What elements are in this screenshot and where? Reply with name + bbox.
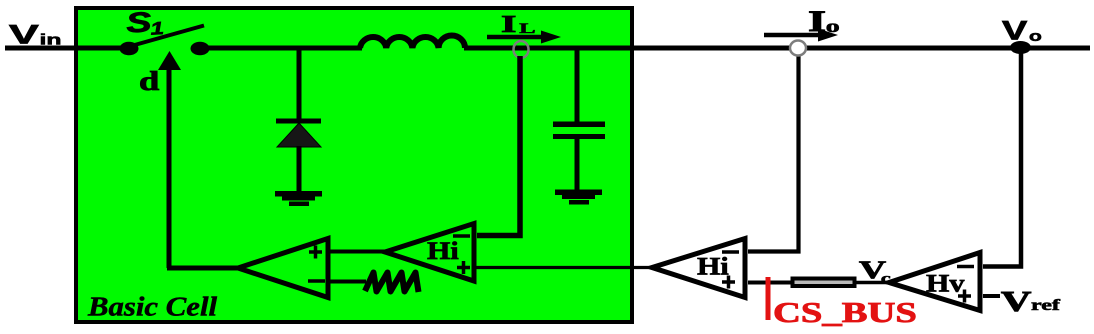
wire capacitor to ground	[575, 138, 580, 190]
wire U1 output to drive	[167, 266, 240, 271]
CS_BUS red tick	[766, 277, 771, 320]
svg-text:V: V	[9, 19, 39, 49]
capacitor C bottom plate	[553, 134, 605, 139]
diode D1 cathode bar	[276, 119, 321, 124]
capacitor C branch wire	[575, 48, 580, 124]
label Vref	[1001, 286, 1060, 317]
svg-text:Hi: Hi	[697, 252, 729, 280]
node IL sense circle	[514, 41, 529, 58]
minus pin U1	[308, 279, 325, 283]
label Basic Cell	[87, 292, 217, 322]
plus pin U2	[457, 266, 470, 270]
minus pin U2	[453, 234, 470, 238]
switch S1 blade	[131, 26, 204, 47]
wire U1 minus to sawtooth	[328, 280, 366, 284]
ground (capacitor)	[555, 190, 602, 196]
capacitor C top plate	[553, 122, 605, 128]
plus pin U1	[309, 250, 322, 254]
label d	[139, 66, 159, 96]
svg-text:Hv: Hv	[926, 269, 965, 297]
node Io sense circle	[790, 41, 806, 56]
wire diode to ground	[297, 146, 302, 192]
minus pin U3	[722, 250, 739, 254]
label S1	[125, 6, 165, 40]
diode D1	[277, 123, 321, 147]
wire inductor to box edge and out to Vo	[464, 46, 1090, 51]
svg-text:o: o	[1029, 27, 1042, 44]
node Vo junction	[1010, 41, 1031, 54]
drive arrow to switch	[167, 68, 172, 268]
label CS_BUS	[773, 298, 917, 329]
wire U2 output to comparator	[328, 250, 386, 254]
svg-text:V: V	[1001, 286, 1032, 317]
svg-text:Hi: Hi	[427, 236, 459, 264]
svg-text:c: c	[881, 270, 891, 286]
svg-text:S: S	[125, 7, 153, 39]
label Io	[808, 5, 840, 38]
wire U4 plus to Vref	[983, 294, 1000, 298]
label Vin	[9, 19, 62, 49]
svg-text:CS_BUS: CS_BUS	[773, 298, 917, 329]
resistor R (CS bus)	[793, 279, 855, 287]
minus pin U4	[957, 265, 974, 269]
wire switch to inductor	[199, 46, 362, 51]
op-amp Hi outer (U3)	[652, 239, 745, 298]
ground (diode)	[275, 191, 322, 197]
wire U3 plus to CS bus	[748, 281, 793, 285]
wire IL sense line	[477, 56, 520, 236]
wire U2 plus input from outer Hi	[474, 266, 655, 269]
label Hi outer	[697, 252, 729, 280]
op-amp Hv (U4)	[889, 253, 980, 311]
diode D1 branch wire	[297, 48, 302, 120]
svg-text:I: I	[501, 11, 516, 37]
op-amp Hi inner (U2)	[385, 224, 474, 282]
basic cell box	[76, 8, 632, 322]
sawtooth ramp symbol	[365, 273, 419, 293]
svg-text:ref: ref	[1031, 297, 1060, 314]
arrow IL	[487, 35, 545, 40]
label Hv	[926, 269, 965, 297]
svg-text:Basic Cell: Basic Cell	[87, 292, 217, 322]
label Vc	[859, 256, 891, 287]
arrow Io	[764, 33, 822, 38]
wire Vo sense to U4 minus	[983, 52, 1021, 267]
svg-text:in: in	[40, 31, 62, 48]
plus pin U4	[958, 294, 971, 298]
svg-text:L: L	[519, 21, 536, 37]
switch S1 left contact	[120, 42, 139, 56]
wire Vin input	[5, 46, 126, 51]
svg-text:1: 1	[149, 18, 164, 39]
comparator U1	[238, 239, 328, 298]
plus pin U3	[722, 280, 735, 284]
svg-text:d: d	[139, 66, 159, 96]
switch S1 right contact	[191, 42, 210, 56]
svg-text:V: V	[1002, 15, 1027, 45]
inductor L	[360, 36, 465, 48]
label Hi inner	[427, 236, 459, 264]
wire Io sense to U3 minus	[748, 55, 799, 252]
label Vo	[1002, 15, 1042, 45]
label IL	[501, 11, 536, 37]
wire resistor to Hv	[856, 281, 890, 285]
